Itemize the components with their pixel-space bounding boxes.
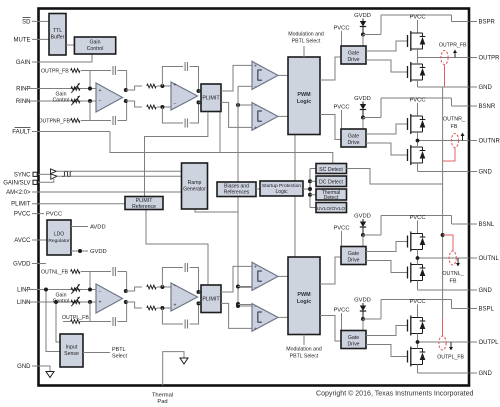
svg-text:LINN: LINN: [17, 300, 31, 306]
svg-text:Copyright © 2016, Texas Instru: Copyright © 2016, Texas Instruments Inco…: [316, 390, 474, 398]
svg-text:PBTL: PBTL: [112, 347, 125, 353]
svg-text:Gain: Gain: [90, 40, 101, 46]
svg-text:GVDD: GVDD: [13, 262, 31, 268]
svg-text:AVCC: AVCC: [14, 238, 31, 244]
svg-text:OUTPR_FB: OUTPR_FB: [41, 69, 69, 75]
svg-text:Drive: Drive: [347, 140, 359, 146]
svg-text:−: −: [99, 289, 102, 295]
svg-text:GAIN: GAIN: [16, 60, 31, 66]
svg-text:Sense: Sense: [64, 351, 79, 357]
svg-text:PLIMIT: PLIMIT: [202, 96, 220, 102]
svg-text:RINN: RINN: [16, 99, 31, 105]
svg-text:PWM: PWM: [297, 92, 311, 98]
svg-text:GVDD: GVDD: [354, 13, 371, 19]
svg-text:OUTPL_FB: OUTPL_FB: [437, 355, 464, 361]
svg-text:Gate: Gate: [348, 251, 359, 257]
svg-text:FB: FB: [451, 124, 458, 130]
svg-text:−: −: [99, 98, 102, 104]
svg-text:MUTE: MUTE: [14, 37, 31, 43]
svg-text:PBTL Select: PBTL Select: [292, 39, 321, 45]
svg-text:OUTPNR_FB: OUTPNR_FB: [39, 119, 71, 125]
svg-text:GND: GND: [479, 85, 493, 91]
svg-text:GND: GND: [479, 170, 493, 176]
svg-text:GVDD: GVDD: [354, 96, 371, 102]
svg-text:Gate: Gate: [348, 51, 359, 57]
svg-text:Drive: Drive: [347, 258, 359, 264]
svg-text:Gate: Gate: [348, 134, 359, 140]
svg-text:Generator: Generator: [183, 187, 206, 193]
svg-text:BSNL: BSNL: [479, 222, 495, 228]
svg-text:Control: Control: [87, 46, 104, 52]
svg-text:Logic: Logic: [297, 99, 311, 105]
svg-text:PVCC: PVCC: [333, 105, 349, 111]
svg-text:−: −: [254, 85, 257, 91]
svg-text:SD: SD: [22, 19, 31, 25]
svg-text:PLIMIT: PLIMIT: [202, 297, 220, 303]
svg-text:PVCC: PVCC: [333, 308, 349, 314]
svg-text:PVCC: PVCC: [333, 26, 349, 32]
svg-text:GVDD: GVDD: [90, 249, 107, 255]
svg-text:Ramp: Ramp: [188, 180, 202, 186]
svg-text:+: +: [99, 88, 102, 94]
svg-text:PBTL Select: PBTL Select: [290, 354, 319, 360]
svg-text:Reference: Reference: [132, 204, 156, 210]
svg-text:OUTNR: OUTNR: [479, 139, 500, 145]
svg-text:+: +: [174, 83, 177, 89]
svg-text:−: −: [174, 101, 177, 107]
svg-text:Select: Select: [112, 354, 127, 360]
svg-text:UVLO/OVLO: UVLO/OVLO: [317, 206, 345, 212]
svg-text:PVCC: PVCC: [409, 299, 425, 305]
svg-text:PWM: PWM: [297, 292, 311, 298]
svg-text:OUTPL: OUTPL: [479, 340, 500, 346]
svg-text:OUTPR: OUTPR: [479, 56, 500, 62]
svg-text:Detect: Detect: [324, 195, 339, 201]
svg-text:OUTNL_: OUTNL_: [442, 271, 464, 277]
svg-text:RINP: RINP: [16, 87, 30, 93]
svg-text:References: References: [224, 190, 250, 196]
svg-text:TTL: TTL: [53, 28, 62, 34]
svg-text:Logic: Logic: [297, 299, 311, 305]
svg-text:Modulation and: Modulation and: [286, 347, 322, 353]
svg-text:PVCC: PVCC: [409, 15, 425, 21]
svg-text:Logic: Logic: [276, 189, 288, 195]
svg-text:Thermal: Thermal: [152, 393, 173, 399]
svg-text:PLIMIT: PLIMIT: [11, 202, 31, 208]
svg-text:OUTPR_FB: OUTPR_FB: [439, 43, 467, 49]
svg-text:−: −: [254, 304, 257, 310]
svg-text:LINP: LINP: [17, 288, 30, 294]
svg-text:Buffer: Buffer: [51, 35, 65, 41]
svg-text:+: +: [254, 64, 257, 70]
svg-text:PVCC: PVCC: [333, 226, 349, 232]
svg-text:FB: FB: [450, 279, 457, 285]
svg-text:Input: Input: [66, 345, 78, 351]
svg-text:−: −: [174, 284, 177, 290]
svg-text:Control: Control: [53, 98, 70, 104]
svg-text:+: +: [254, 126, 257, 132]
svg-text:Gate: Gate: [348, 335, 359, 341]
svg-text:PVCC: PVCC: [14, 212, 31, 218]
svg-text:Regulator: Regulator: [48, 238, 70, 244]
svg-text:OUTNR_: OUTNR_: [443, 117, 466, 123]
svg-text:+: +: [254, 327, 257, 333]
svg-text:GAIN/SLV: GAIN/SLV: [3, 180, 30, 186]
svg-text:−: −: [254, 103, 257, 109]
svg-text:OUTPL_FB: OUTPL_FB: [62, 315, 89, 321]
svg-text:+: +: [99, 299, 102, 305]
svg-text:LDO: LDO: [54, 232, 64, 238]
svg-text:GND: GND: [17, 364, 31, 370]
svg-text:Drive: Drive: [347, 57, 359, 63]
svg-text:AVDD: AVDD: [90, 225, 106, 231]
svg-text:PVCC: PVCC: [409, 98, 425, 104]
svg-text:PVCC: PVCC: [46, 212, 62, 218]
svg-text:+: +: [174, 302, 177, 308]
svg-text:Modulation and: Modulation and: [288, 32, 324, 38]
svg-text:BSPL: BSPL: [479, 307, 495, 313]
svg-text:Pad: Pad: [157, 399, 167, 405]
svg-text:GND: GND: [479, 288, 493, 294]
svg-text:−: −: [254, 286, 257, 292]
svg-text:AM<2:0>: AM<2:0>: [6, 190, 31, 196]
svg-text:BSNR: BSNR: [479, 104, 496, 110]
svg-text:OUTNL_FB: OUTNL_FB: [41, 270, 69, 276]
svg-text:SYNC: SYNC: [14, 172, 31, 178]
svg-text:SC Detect: SC Detect: [319, 167, 343, 173]
svg-text:FAULT: FAULT: [12, 130, 31, 136]
svg-text:PVCC: PVCC: [409, 215, 425, 221]
svg-text:BSPR: BSPR: [479, 20, 496, 26]
svg-text:OUTNL: OUTNL: [479, 256, 500, 262]
svg-text:DC Detect: DC Detect: [319, 180, 343, 186]
svg-text:GND: GND: [479, 371, 493, 377]
svg-text:GVDD: GVDD: [354, 214, 371, 220]
svg-text:Drive: Drive: [347, 342, 359, 348]
svg-text:GVDD: GVDD: [354, 298, 371, 304]
svg-text:+: +: [254, 265, 257, 271]
